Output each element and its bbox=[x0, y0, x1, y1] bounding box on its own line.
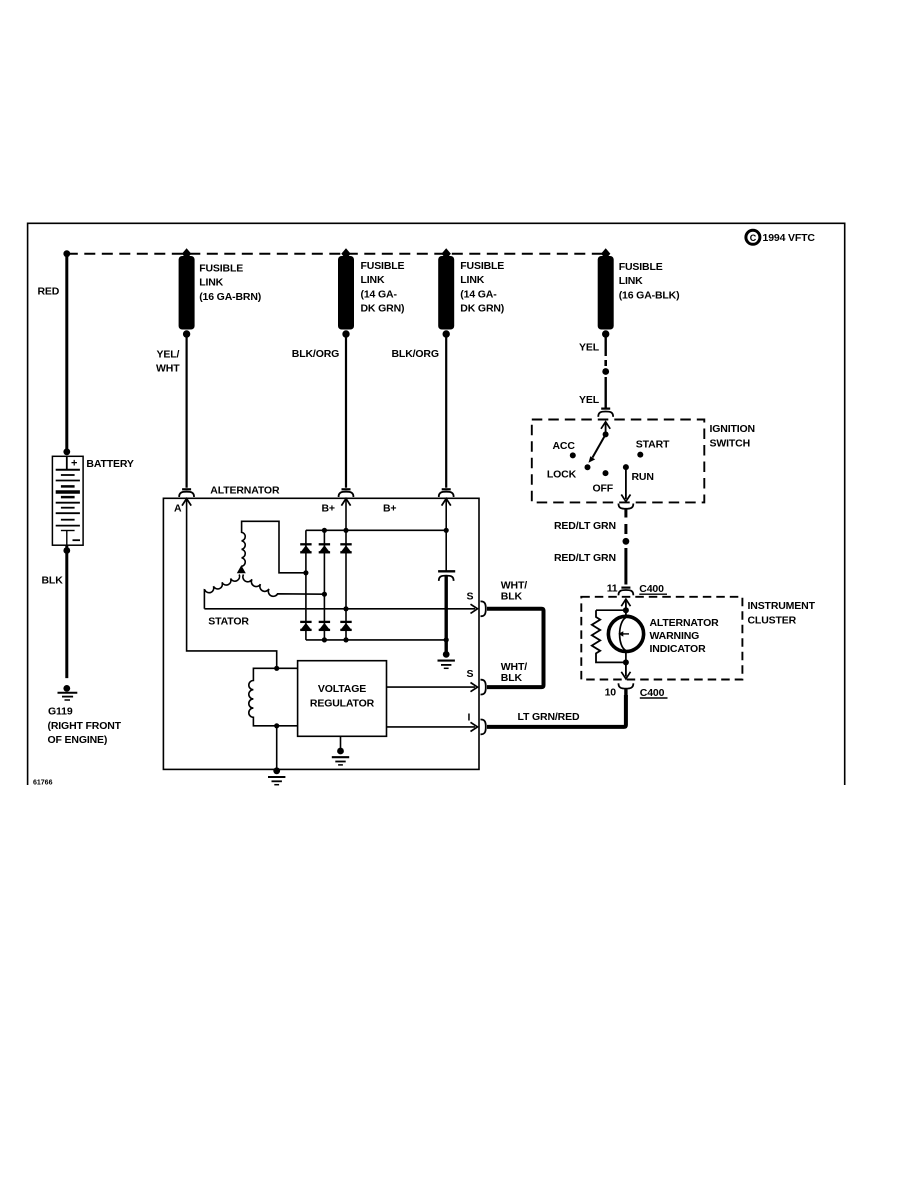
wire BLK (battery negative) bbox=[65, 545, 68, 678]
node: phase 1 tap bbox=[303, 570, 308, 575]
node: phase 2 tap bbox=[322, 592, 327, 597]
connector at ignition switch input bbox=[601, 408, 610, 410]
svg-text:I: I bbox=[468, 712, 471, 724]
fusible link F2 (14 GA-DK GRN) bbox=[338, 248, 405, 337]
svg-text:LINK: LINK bbox=[460, 274, 484, 286]
wire LT GRN/RED bbox=[487, 695, 626, 727]
wire: A terminal to field node bbox=[187, 499, 277, 668]
copyright logo 1994 VFTC bbox=[746, 230, 816, 244]
switch position LOCK bbox=[585, 464, 591, 470]
terminal B+ connector (right) bbox=[383, 489, 454, 514]
svg-text:VOLTAGE: VOLTAGE bbox=[318, 683, 366, 695]
connector on S (stator) output bbox=[481, 601, 486, 616]
svg-text:BLK: BLK bbox=[501, 672, 523, 684]
svg-text:YEL: YEL bbox=[579, 341, 600, 353]
svg-text:B+: B+ bbox=[383, 503, 396, 515]
battery bbox=[52, 456, 134, 545]
terminal B+ connector (left) bbox=[322, 489, 354, 514]
connector C400 pin 10 bbox=[605, 683, 668, 699]
node: battery negative terminal bbox=[63, 547, 70, 554]
svg-text:SWITCH: SWITCH bbox=[710, 437, 751, 449]
alternator warning indicator lamp bbox=[608, 616, 719, 662]
svg-text:C400: C400 bbox=[639, 583, 664, 595]
svg-text:BLK/ORG: BLK/ORG bbox=[392, 348, 439, 360]
svg-text:(14 GA-: (14 GA- bbox=[361, 288, 398, 300]
svg-text:(RIGHT FRONT: (RIGHT FRONT bbox=[48, 720, 122, 732]
ignition switch box bbox=[532, 420, 705, 503]
svg-text:CLUSTER: CLUSTER bbox=[748, 615, 797, 627]
wire RED/LT GRN (broken segment) bbox=[624, 524, 627, 534]
diode column 1 bbox=[305, 530, 307, 640]
terminal A connector bbox=[174, 489, 194, 514]
svg-text:FUSIBLE: FUSIBLE bbox=[199, 263, 243, 275]
switch position START bbox=[637, 452, 643, 458]
svg-text:ALTERNATOR: ALTERNATOR bbox=[210, 485, 280, 497]
diode D3 bbox=[340, 544, 351, 552]
switch position ACC bbox=[570, 452, 576, 458]
diode D5 bbox=[319, 622, 330, 630]
wire BLK/ORG (right) bbox=[445, 337, 447, 488]
svg-text:LINK: LINK bbox=[619, 275, 643, 287]
svg-text:WHT: WHT bbox=[156, 362, 180, 374]
diode column 2 bbox=[323, 530, 325, 640]
svg-text:(16 GA-BRN): (16 GA-BRN) bbox=[199, 291, 261, 303]
wire RED (battery positive) bbox=[65, 254, 68, 452]
stator output S wire bbox=[204, 608, 475, 610]
regulator I output bbox=[387, 726, 476, 728]
fusible link F3 (14 GA-DK GRN) bbox=[438, 248, 504, 337]
svg-text:OF ENGINE): OF ENGINE) bbox=[48, 734, 108, 746]
svg-text:LINK: LINK bbox=[361, 274, 385, 286]
ignition switch mechanism bbox=[589, 422, 611, 463]
svg-text:RUN: RUN bbox=[632, 471, 654, 483]
regulator ground bbox=[340, 736, 342, 748]
node: battery positive terminal bbox=[63, 448, 70, 455]
svg-text:BLK: BLK bbox=[501, 591, 523, 603]
switch position RUN bbox=[623, 464, 629, 470]
svg-text:LINK: LINK bbox=[199, 277, 223, 289]
wire YEL/WHT bbox=[186, 337, 188, 488]
fusible link F4 (16 GA-BLK) bbox=[598, 248, 680, 337]
connector on S (regulator) output bbox=[481, 680, 486, 695]
svg-text:B+: B+ bbox=[322, 503, 335, 515]
svg-text:BATTERY: BATTERY bbox=[86, 458, 134, 470]
diode D4 bbox=[300, 622, 311, 630]
node dots on rails bbox=[322, 528, 327, 533]
wire RED/LT GRN (solid segment) bbox=[624, 548, 627, 585]
svg-text:RED: RED bbox=[38, 286, 60, 298]
connector C400 pin 11 bbox=[607, 582, 667, 595]
svg-text:C: C bbox=[750, 233, 757, 243]
power bus (dashed hot-at-all-times line) bbox=[67, 253, 606, 255]
svg-text:61766: 61766 bbox=[33, 780, 53, 787]
svg-text:START: START bbox=[636, 439, 670, 451]
svg-text:REGULATOR: REGULATOR bbox=[310, 698, 375, 710]
svg-text:YEL: YEL bbox=[579, 394, 600, 406]
diode D1 bbox=[300, 544, 311, 552]
svg-text:FUSIBLE: FUSIBLE bbox=[460, 260, 504, 272]
svg-text:INSTRUMENT: INSTRUMENT bbox=[748, 600, 816, 612]
svg-text:LOCK: LOCK bbox=[547, 469, 577, 481]
node: phase 3 / S tap bbox=[343, 606, 348, 611]
svg-text:STATOR: STATOR bbox=[208, 615, 249, 627]
ground G119 (right front of engine) bbox=[48, 685, 122, 746]
svg-text:10: 10 bbox=[605, 686, 617, 698]
wire BLK/ORG (left) bbox=[345, 337, 347, 488]
connector below ignition switch bbox=[618, 504, 633, 509]
wire: field node to case ground bbox=[276, 726, 278, 770]
splice on RED/LT GRN bbox=[623, 538, 630, 545]
resistor (shunt in cluster) bbox=[592, 610, 626, 662]
svg-text:IGNITION: IGNITION bbox=[710, 423, 755, 435]
svg-text:FUSIBLE: FUSIBLE bbox=[619, 261, 663, 273]
svg-text:RED/LT GRN: RED/LT GRN bbox=[554, 552, 616, 564]
fusible link F1 (16 GA-BRN) bbox=[179, 248, 262, 337]
regulator S output bbox=[387, 686, 476, 688]
svg-text:LT GRN/RED: LT GRN/RED bbox=[518, 711, 580, 723]
wire: B+ riser (right) / capacitor column bbox=[445, 499, 447, 571]
svg-text:S: S bbox=[467, 668, 474, 680]
ground (alternator case) bbox=[268, 767, 285, 784]
svg-text:ALTERNATOR: ALTERNATOR bbox=[650, 617, 720, 629]
node: indicator bottom junction bbox=[623, 659, 629, 665]
switch position OFF bbox=[603, 470, 609, 476]
instrument cluster box bbox=[581, 597, 742, 680]
svg-text:1994 VFTC: 1994 VFTC bbox=[763, 232, 816, 244]
wire YEL (upper segment) bbox=[605, 337, 607, 356]
node: bus / battery junction bbox=[63, 250, 70, 257]
svg-text:YEL/: YEL/ bbox=[157, 348, 180, 360]
svg-text:OFF: OFF bbox=[593, 482, 614, 494]
wire to cluster output bbox=[625, 662, 627, 676]
ground (capacitor) bbox=[438, 651, 455, 668]
wire from RUN to output bbox=[625, 467, 627, 499]
inline splice on YEL wire bbox=[604, 360, 607, 366]
field coil and nodes bbox=[249, 666, 298, 729]
svg-text:DK GRN): DK GRN) bbox=[460, 303, 504, 315]
svg-text:BLK/ORG: BLK/ORG bbox=[292, 348, 339, 360]
stator windings bbox=[204, 521, 324, 627]
svg-text:RED/LT GRN: RED/LT GRN bbox=[554, 520, 616, 532]
svg-text:WARNING: WARNING bbox=[650, 630, 700, 642]
diode D2 bbox=[319, 544, 330, 552]
svg-text:C400: C400 bbox=[640, 687, 665, 699]
svg-text:(16 GA-BLK): (16 GA-BLK) bbox=[619, 289, 680, 301]
svg-text:FUSIBLE: FUSIBLE bbox=[361, 260, 405, 272]
svg-text:DK GRN): DK GRN) bbox=[361, 303, 405, 315]
connector on I output bbox=[481, 719, 486, 734]
wire: B+ riser (left) bbox=[345, 499, 347, 640]
rectifier top rail bbox=[306, 529, 446, 531]
svg-text:ACC: ACC bbox=[553, 440, 576, 452]
alternator box bbox=[163, 498, 479, 769]
node: indicator top junction bbox=[623, 607, 629, 613]
svg-text:INDICATOR: INDICATOR bbox=[650, 643, 707, 655]
svg-text:A: A bbox=[174, 503, 182, 515]
svg-text:BLK: BLK bbox=[42, 575, 64, 587]
svg-text:+: + bbox=[71, 458, 77, 470]
svg-text:G119: G119 bbox=[48, 706, 73, 718]
svg-text:11: 11 bbox=[607, 582, 618, 594]
capacitor bbox=[438, 571, 455, 654]
wire YEL (lower segment) bbox=[605, 377, 607, 408]
wire into cluster bbox=[621, 599, 630, 606]
wire WHT/BLK jumper loop bbox=[487, 609, 544, 687]
rectifier bottom rail bbox=[306, 639, 446, 641]
voltage regulator bbox=[298, 661, 387, 737]
diode D6 bbox=[340, 622, 351, 630]
svg-text:S: S bbox=[467, 591, 474, 603]
svg-text:(14 GA-: (14 GA- bbox=[460, 288, 497, 300]
